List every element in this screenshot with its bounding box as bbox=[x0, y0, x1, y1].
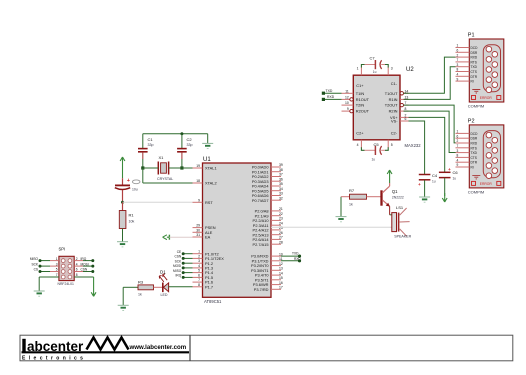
svg-text:9: 9 bbox=[347, 107, 349, 111]
svg-text:LED: LED bbox=[161, 293, 168, 297]
svg-text:30: 30 bbox=[196, 228, 200, 232]
svg-text:17: 17 bbox=[279, 286, 283, 290]
svg-text:23: 23 bbox=[279, 217, 283, 221]
svg-text:DCD: DCD bbox=[471, 132, 479, 136]
svg-text:C7: C7 bbox=[370, 55, 376, 60]
svg-text:CRYSTAL: CRYSTAL bbox=[157, 177, 173, 181]
svg-text:+: + bbox=[127, 178, 130, 184]
svg-text:SCK: SCK bbox=[31, 262, 38, 266]
svg-text:22: 22 bbox=[279, 212, 283, 216]
svg-text:C2+: C2+ bbox=[356, 131, 364, 136]
svg-text:21: 21 bbox=[279, 207, 283, 211]
svg-text:D1: D1 bbox=[160, 270, 166, 275]
svg-text:P2: P2 bbox=[468, 118, 475, 124]
svg-text:SCK: SCK bbox=[175, 259, 182, 263]
svg-text:ERROR: ERROR bbox=[480, 96, 493, 100]
svg-text:1: 1 bbox=[457, 44, 459, 48]
svg-text:www.labcenter.com: www.labcenter.com bbox=[129, 344, 187, 351]
svg-text:RXD: RXD bbox=[327, 95, 335, 99]
svg-text:C1+: C1+ bbox=[356, 83, 364, 88]
svg-text:Q1: Q1 bbox=[392, 189, 398, 194]
svg-text:MISO: MISO bbox=[30, 257, 39, 261]
svg-text:DSR: DSR bbox=[471, 51, 478, 55]
svg-text:NRF24L01: NRF24L01 bbox=[58, 282, 75, 286]
svg-text:32: 32 bbox=[279, 196, 283, 200]
svg-text:33: 33 bbox=[279, 192, 283, 196]
svg-text:1: 1 bbox=[457, 130, 459, 134]
svg-text:12: 12 bbox=[345, 95, 349, 99]
svg-text:4: 4 bbox=[357, 143, 359, 147]
svg-text:R2IN: R2IN bbox=[389, 109, 398, 114]
svg-text:P3.7/RD: P3.7/RD bbox=[254, 287, 269, 292]
svg-text:14: 14 bbox=[405, 89, 409, 93]
svg-text:3: 3 bbox=[198, 259, 200, 263]
svg-text:18: 18 bbox=[196, 179, 200, 183]
svg-text:2: 2 bbox=[457, 139, 459, 143]
svg-text:XTAL1: XTAL1 bbox=[205, 166, 217, 171]
svg-text:3: 3 bbox=[457, 63, 459, 67]
svg-text:1: 1 bbox=[56, 257, 58, 261]
svg-text:28: 28 bbox=[279, 240, 283, 244]
svg-text:3: 3 bbox=[56, 262, 58, 266]
svg-text:RTS: RTS bbox=[471, 60, 477, 64]
svg-text:8: 8 bbox=[457, 68, 459, 72]
svg-text:37: 37 bbox=[279, 173, 283, 177]
svg-text:9: 9 bbox=[457, 77, 459, 81]
svg-text:+: + bbox=[448, 167, 451, 172]
svg-text:R3: R3 bbox=[138, 280, 144, 285]
svg-text:24: 24 bbox=[279, 221, 283, 225]
svg-text:8: 8 bbox=[198, 283, 200, 287]
svg-text:RI: RI bbox=[471, 80, 474, 84]
svg-text:29: 29 bbox=[196, 224, 200, 228]
svg-text:CTS: CTS bbox=[471, 156, 477, 160]
svg-text:P0.7/AD7: P0.7/AD7 bbox=[252, 198, 269, 203]
svg-text:38: 38 bbox=[279, 168, 283, 172]
svg-text:1u: 1u bbox=[453, 177, 457, 181]
svg-text:CSN: CSN bbox=[174, 255, 181, 259]
svg-text:DTR: DTR bbox=[471, 161, 478, 165]
svg-text:SPEAKER: SPEAKER bbox=[394, 235, 411, 239]
svg-text:T2IN: T2IN bbox=[356, 103, 365, 108]
svg-text:MISO: MISO bbox=[173, 269, 182, 273]
svg-text:1k: 1k bbox=[349, 203, 353, 207]
svg-text:7: 7 bbox=[198, 278, 200, 282]
svg-text:26: 26 bbox=[279, 231, 283, 235]
svg-text:DCD: DCD bbox=[471, 46, 479, 50]
svg-text:P1.7: P1.7 bbox=[205, 284, 213, 289]
svg-text:6: 6 bbox=[405, 117, 407, 121]
svg-text:11: 11 bbox=[345, 89, 349, 93]
svg-text:Electronics: Electronics bbox=[22, 355, 86, 361]
svg-text:COMPIM: COMPIM bbox=[468, 104, 484, 109]
svg-text:10: 10 bbox=[345, 101, 349, 105]
svg-text:2N2222: 2N2222 bbox=[392, 196, 404, 200]
svg-text:RI: RI bbox=[471, 166, 474, 170]
svg-text:1u: 1u bbox=[432, 180, 436, 184]
svg-text:15: 15 bbox=[279, 276, 283, 280]
svg-text:T1IN: T1IN bbox=[356, 91, 365, 96]
svg-text:RXD: RXD bbox=[471, 56, 478, 60]
svg-text:16: 16 bbox=[279, 281, 283, 285]
svg-text:LS1: LS1 bbox=[396, 205, 404, 210]
svg-text:CTS: CTS bbox=[471, 70, 477, 74]
svg-text:T1OUT: T1OUT bbox=[385, 91, 398, 96]
svg-text:U2: U2 bbox=[406, 67, 414, 73]
svg-text:T2OUT: T2OUT bbox=[385, 103, 398, 108]
svg-text:COMPIM: COMPIM bbox=[468, 189, 484, 194]
svg-text:5: 5 bbox=[198, 269, 200, 273]
svg-text:RST: RST bbox=[205, 200, 213, 205]
svg-text:C2: C2 bbox=[187, 137, 193, 142]
svg-text:6: 6 bbox=[457, 49, 459, 53]
svg-text:2: 2 bbox=[457, 53, 459, 57]
svg-text:10k: 10k bbox=[129, 220, 135, 224]
svg-text:R1: R1 bbox=[129, 213, 135, 218]
svg-text:6: 6 bbox=[76, 268, 78, 272]
svg-text:CE: CE bbox=[177, 250, 181, 254]
svg-text:C4: C4 bbox=[432, 173, 438, 178]
svg-text:MOSI: MOSI bbox=[173, 264, 181, 268]
svg-text:7: 7 bbox=[457, 144, 459, 148]
svg-text:13: 13 bbox=[405, 95, 409, 99]
svg-text:4: 4 bbox=[198, 264, 200, 268]
svg-text:IRQ: IRQ bbox=[176, 274, 182, 278]
svg-text:33p: 33p bbox=[148, 143, 154, 147]
svg-text:36: 36 bbox=[279, 177, 283, 181]
svg-text:MOSI: MOSI bbox=[81, 262, 89, 266]
svg-text:R1OUT: R1OUT bbox=[356, 97, 370, 102]
svg-text:3: 3 bbox=[457, 149, 459, 153]
svg-text:CSN: CSN bbox=[81, 268, 88, 272]
svg-text:TXD: TXD bbox=[292, 252, 299, 256]
svg-text:4: 4 bbox=[457, 73, 459, 77]
svg-text:R7: R7 bbox=[349, 188, 355, 193]
svg-text:39: 39 bbox=[279, 163, 283, 167]
svg-text:DTR: DTR bbox=[471, 75, 478, 79]
svg-text:TXD: TXD bbox=[471, 151, 478, 155]
svg-text:8: 8 bbox=[405, 107, 407, 111]
svg-text:1k: 1k bbox=[138, 292, 142, 296]
svg-text:RXD: RXD bbox=[471, 142, 478, 146]
svg-text:2: 2 bbox=[198, 254, 200, 258]
svg-text:AT89C51: AT89C51 bbox=[204, 299, 222, 304]
svg-text:19: 19 bbox=[196, 164, 200, 168]
svg-text:CS: CS bbox=[34, 268, 38, 272]
svg-text:10u: 10u bbox=[132, 187, 138, 191]
svg-text:7: 7 bbox=[457, 58, 459, 62]
svg-text:TXD: TXD bbox=[471, 65, 478, 69]
svg-text:RTS: RTS bbox=[471, 146, 477, 150]
svg-text:9: 9 bbox=[457, 163, 459, 167]
svg-text:14: 14 bbox=[279, 271, 283, 275]
svg-text:1u: 1u bbox=[373, 70, 377, 74]
svg-text:DSR: DSR bbox=[471, 137, 478, 141]
svg-text:5: 5 bbox=[56, 268, 58, 272]
svg-text:VS-: VS- bbox=[391, 119, 398, 124]
svg-text:X1: X1 bbox=[159, 155, 165, 160]
svg-text:C1: C1 bbox=[148, 137, 154, 142]
svg-text:P2.7/A15: P2.7/A15 bbox=[252, 242, 268, 247]
svg-text:6: 6 bbox=[198, 273, 200, 277]
svg-text:5: 5 bbox=[391, 143, 393, 147]
svg-text:R2OUT: R2OUT bbox=[356, 109, 370, 114]
svg-text:U1: U1 bbox=[203, 157, 211, 163]
svg-text:25: 25 bbox=[279, 226, 283, 230]
svg-text:XTAL2: XTAL2 bbox=[205, 181, 217, 186]
svg-text:6: 6 bbox=[457, 134, 459, 138]
svg-text:IRQ: IRQ bbox=[81, 257, 87, 261]
svg-text:4: 4 bbox=[457, 158, 459, 162]
svg-text:1: 1 bbox=[357, 67, 359, 71]
svg-text:34: 34 bbox=[279, 187, 283, 191]
svg-text:R1IN: R1IN bbox=[389, 97, 398, 102]
svg-text:12: 12 bbox=[279, 262, 283, 266]
svg-text:C1-: C1- bbox=[391, 81, 398, 86]
svg-text:27: 27 bbox=[279, 236, 283, 240]
svg-text:2: 2 bbox=[76, 257, 78, 261]
svg-text:C2-: C2- bbox=[391, 131, 398, 136]
svg-text:TXD: TXD bbox=[326, 89, 333, 93]
svg-text:P1: P1 bbox=[468, 33, 475, 39]
svg-text:+: + bbox=[418, 182, 421, 187]
svg-text:C6: C6 bbox=[453, 170, 459, 175]
svg-text:1u: 1u bbox=[372, 158, 376, 162]
svg-text:1: 1 bbox=[198, 250, 200, 254]
svg-text:33p: 33p bbox=[187, 143, 193, 147]
svg-text:4: 4 bbox=[76, 262, 78, 266]
svg-text:9: 9 bbox=[198, 198, 200, 202]
svg-text:abcenter: abcenter bbox=[27, 339, 84, 354]
svg-text:3: 3 bbox=[391, 67, 393, 71]
svg-text:35: 35 bbox=[279, 182, 283, 186]
svg-text:MAX232: MAX232 bbox=[405, 143, 422, 148]
svg-text:SPI: SPI bbox=[59, 247, 66, 252]
svg-text:8: 8 bbox=[457, 154, 459, 158]
svg-text:31: 31 bbox=[196, 233, 200, 237]
svg-text:ERROR: ERROR bbox=[480, 182, 493, 186]
svg-text:EA: EA bbox=[205, 235, 211, 240]
svg-text:C5: C5 bbox=[374, 142, 380, 147]
svg-text:13: 13 bbox=[279, 267, 283, 271]
svg-text:7: 7 bbox=[405, 101, 407, 105]
svg-text:RXD: RXD bbox=[294, 257, 301, 261]
